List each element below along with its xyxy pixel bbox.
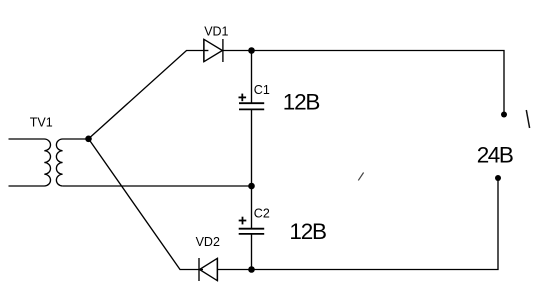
diode VD2 (199, 258, 217, 281)
svg-text:C1: C1 (254, 83, 270, 97)
wire C2 top lead (251, 186, 253, 229)
node A junction dot (secondary top terminal) (85, 136, 92, 143)
junction node mid rail (248, 183, 255, 190)
diode VD1 (204, 39, 223, 62)
svg-text:24B: 24B (477, 142, 513, 167)
wire C1 bottom lead (251, 109, 253, 186)
transformer TV1 primary winding (9, 139, 51, 186)
plus polarity mark C2 (239, 217, 247, 225)
wire VD2 anode to bottom-right corner up to terminal (217, 178, 498, 270)
wire VD1 cathode to top-right corner down to terminal (223, 51, 504, 115)
stray mark near middle rail (358, 173, 363, 181)
svg-text:12B: 12B (289, 219, 326, 244)
wire C1 top lead (251, 51, 253, 104)
svg-text:VD1: VD1 (204, 25, 228, 39)
svg-text:12B: 12B (283, 90, 320, 115)
transformer TV1 secondary winding (56, 139, 88, 186)
wire C2 bottom lead (251, 234, 253, 270)
wire node A to VD2 cathode (diagonal) (89, 139, 200, 270)
stray mark near 24B terminal (526, 110, 529, 128)
capacitor C2 (239, 229, 265, 234)
svg-text:VD2: VD2 (196, 235, 220, 249)
capacitor C1 (239, 103, 264, 109)
wire node A to VD1 anode (diagonal) (89, 51, 204, 139)
junction node top of C1 (248, 47, 255, 54)
plus polarity mark C1 (239, 94, 247, 102)
svg-text:TV1: TV1 (30, 115, 53, 129)
terminal node bottom output (495, 175, 501, 181)
junction node bottom of C2 (248, 266, 255, 273)
svg-text:C2: C2 (254, 207, 270, 221)
wire middle rail (secondary bottom to C1/C2 junction) (63, 185, 252, 187)
terminal node top (+) output (501, 112, 507, 118)
